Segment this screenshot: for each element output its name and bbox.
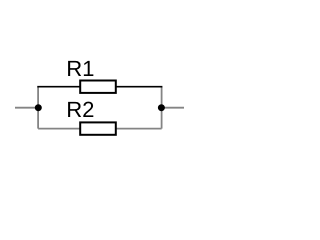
resistor R2	[80, 122, 116, 134]
wire left lead	[15, 107, 38, 109]
label R2	[68, 102, 93, 117]
wire R2 left lead	[38, 128, 80, 130]
node B (right junction)	[158, 104, 165, 111]
label R1	[68, 61, 93, 76]
resistor R1	[80, 81, 116, 93]
wire left vertical bus	[37, 87, 39, 129]
wire R1 right lead	[116, 86, 162, 88]
wire right vertical bus	[161, 87, 163, 129]
node A (left junction)	[35, 104, 42, 111]
wire right lead	[162, 107, 184, 109]
wire R1 left lead	[37, 86, 80, 88]
wire R2 right lead	[116, 128, 162, 130]
